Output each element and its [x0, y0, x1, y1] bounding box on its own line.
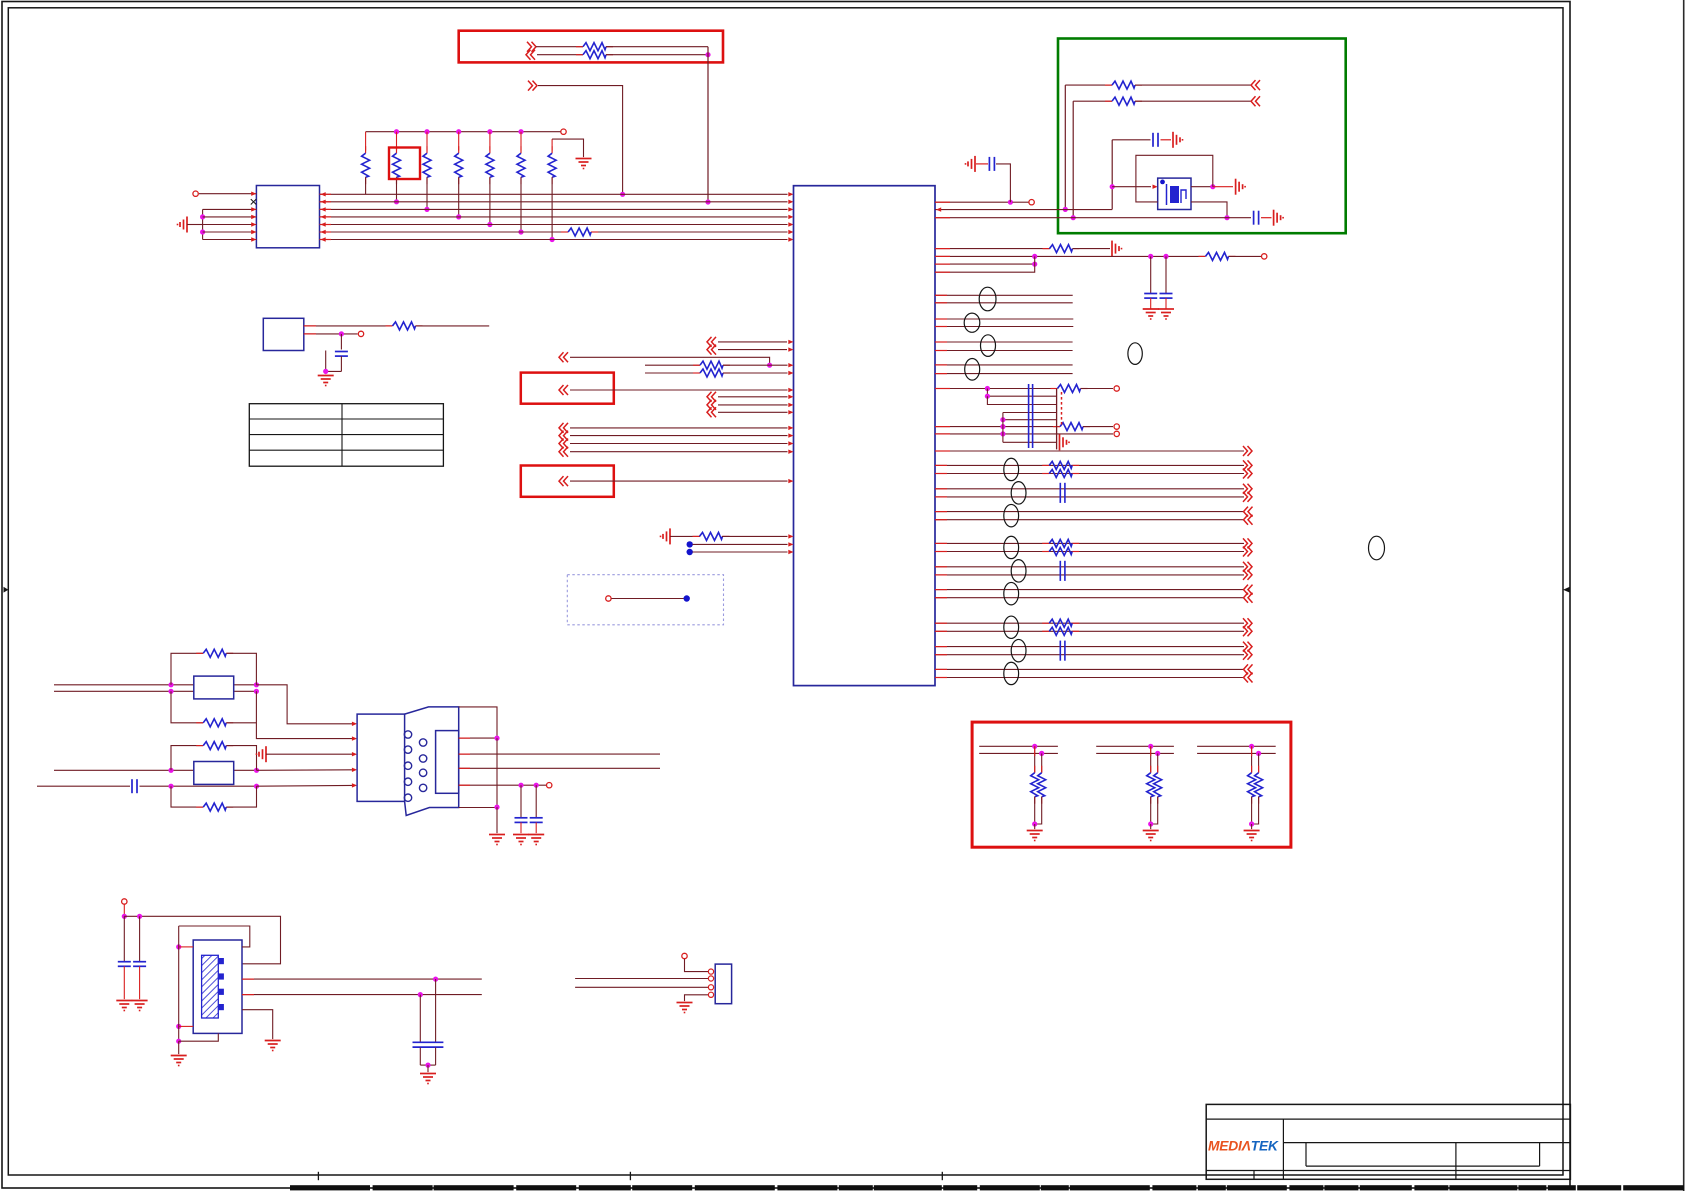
ground-resistor line	[669, 528, 671, 544]
resistor RR2	[1199, 255, 1206, 257]
wire	[718, 349, 787, 351]
net arrow	[712, 345, 717, 355]
junction	[339, 331, 344, 336]
crystal Y1 body	[193, 940, 242, 1033]
bus wire 5	[320, 224, 788, 226]
wire pin2	[575, 978, 709, 980]
wire	[1261, 217, 1272, 219]
net arrow	[1243, 469, 1248, 479]
no-connect X on pin2	[251, 199, 256, 204]
wire resistor line 1	[645, 364, 700, 366]
callout box (green)	[1058, 39, 1346, 234]
svg-text:MEDIΛTEK: MEDIΛTEK	[1208, 1139, 1279, 1154]
ground at connector	[186, 217, 188, 233]
resistor pull pair	[1150, 746, 1152, 772]
junction	[323, 369, 328, 374]
wire	[976, 163, 988, 165]
wire net2	[1073, 100, 1112, 102]
junction rail R4	[456, 129, 461, 134]
loop resistor RS3	[171, 746, 203, 771]
wire	[266, 753, 353, 755]
wire crystal gnd pin	[242, 1010, 273, 1039]
wire	[496, 738, 498, 807]
wire sim line4 with cap	[37, 785, 130, 787]
net arrow in box	[564, 385, 569, 395]
SIM holder contact holes column 1	[404, 731, 411, 738]
callout box (red) bottom right	[972, 722, 1291, 847]
wire	[1013, 201, 1029, 203]
crystal left pins	[176, 944, 181, 949]
capacitor CX1	[123, 916, 125, 961]
resistor pair	[1042, 542, 1049, 544]
wire sim right pin2	[459, 753, 660, 755]
wire	[1081, 388, 1113, 390]
junction	[620, 192, 625, 197]
bus wire 6	[320, 231, 569, 233]
title block logo cell	[1282, 1119, 1284, 1179]
footer text strip	[290, 1185, 370, 1190]
junction	[176, 1039, 181, 1044]
wire vertical from red box to bus	[707, 47, 709, 202]
oval marker	[1004, 582, 1019, 604]
wire	[187, 224, 203, 226]
wire resistor line 2	[645, 372, 700, 374]
wire	[612, 598, 684, 600]
wire	[1227, 217, 1251, 219]
junction	[518, 783, 523, 788]
wire	[693, 543, 788, 545]
SIM holder contact block	[436, 731, 459, 794]
wire	[570, 443, 788, 445]
junction bus	[487, 222, 492, 227]
wire rail 2	[979, 752, 1058, 754]
junction	[1249, 821, 1254, 826]
bus wire 1	[320, 193, 788, 195]
junction	[705, 199, 710, 204]
ESD array U4	[194, 676, 234, 699]
pin arrow	[251, 192, 256, 196]
wire rail 1	[979, 745, 1058, 747]
wire connector left pin	[203, 216, 257, 218]
wire	[570, 357, 770, 365]
net arrow	[1243, 538, 1248, 548]
audio ground bus	[1056, 389, 1058, 450]
wire audio G	[935, 433, 1113, 435]
wire	[935, 326, 1073, 328]
terminal at connector pin1	[193, 191, 198, 196]
wire pin R3 to green box	[935, 217, 1227, 219]
wire mosfet input	[1112, 186, 1151, 188]
junction	[1039, 751, 1044, 756]
net arrow trio	[712, 392, 717, 402]
net arrow	[1243, 642, 1248, 652]
net arrow	[1248, 673, 1253, 683]
net arrow	[1243, 562, 1248, 572]
resistor RA2	[1053, 426, 1060, 428]
wire top loop	[179, 926, 250, 947]
wire sim bottom	[459, 807, 497, 809]
junction	[1224, 215, 1229, 220]
junction	[705, 52, 710, 57]
junction	[168, 682, 173, 687]
junction	[985, 386, 990, 391]
bus wire 3	[320, 208, 788, 210]
terminal in dotted box	[606, 596, 611, 601]
wire	[496, 807, 498, 833]
wire pair A2	[935, 551, 1244, 553]
ground for RP7	[583, 158, 585, 159]
mosfet U2 body	[1158, 178, 1191, 209]
junction	[1256, 751, 1261, 756]
wire	[570, 427, 788, 429]
wire pair B2	[935, 654, 1244, 656]
junction	[254, 784, 259, 789]
wire	[723, 364, 788, 366]
junction	[1000, 417, 1005, 422]
capacitor pair plates	[1059, 641, 1061, 661]
wire sim right pin3	[459, 767, 660, 769]
junction	[1032, 821, 1037, 826]
wire left vertical	[178, 926, 180, 1041]
net arrow mid	[564, 352, 569, 362]
oval marker	[965, 359, 980, 381]
wire	[537, 54, 583, 56]
oval marker	[1004, 616, 1019, 638]
wire pair A1	[935, 542, 1244, 544]
ground	[1059, 434, 1061, 450]
wire pair B1	[935, 566, 1244, 568]
bottom border zone tick 1	[317, 1172, 319, 1180]
callout box (red) mid 1	[521, 373, 614, 404]
wire	[718, 404, 788, 406]
junction	[767, 363, 772, 368]
capacitor CR1	[988, 157, 990, 171]
junction	[254, 682, 259, 687]
resistor R_top2	[576, 54, 583, 56]
net arrow quad	[564, 423, 569, 433]
wire	[140, 785, 257, 787]
wire audio A	[935, 388, 1057, 390]
net arrow into box line 1	[527, 42, 532, 52]
wire diff pair	[935, 364, 1073, 366]
wire	[199, 193, 256, 195]
net arrow	[1243, 547, 1248, 557]
wire connector left pin	[203, 224, 257, 226]
junction rail R2	[394, 129, 399, 134]
net arrow	[1243, 570, 1248, 580]
loop resistor RS2	[171, 691, 203, 723]
wire pair B2	[935, 574, 1244, 576]
wire diff pair	[935, 318, 1073, 320]
wire crystal bottom pin	[179, 1033, 219, 1041]
ground	[1034, 824, 1036, 829]
series resistor bus line 6	[561, 231, 568, 233]
wire pair A2	[935, 473, 1244, 475]
wire	[1135, 84, 1251, 86]
node stub 2	[687, 549, 693, 555]
wire rail 1	[1096, 745, 1174, 747]
ground	[1150, 824, 1152, 829]
wire vertical to mosfet node	[1111, 140, 1113, 210]
wire	[935, 302, 1073, 304]
wire pair C2	[935, 519, 1244, 521]
wire pinB	[304, 333, 358, 335]
wire	[723, 372, 788, 374]
right zone arrow	[1563, 587, 1570, 593]
title block outer box	[1206, 1104, 1570, 1179]
junction rail R3	[424, 129, 429, 134]
junction	[1210, 184, 1215, 189]
left zone arrow	[4, 587, 9, 593]
oval marker far right	[1369, 536, 1385, 560]
junction	[168, 689, 173, 694]
wire sim right top	[459, 707, 497, 738]
wire	[718, 341, 787, 343]
rail terminal	[561, 129, 566, 134]
wire pair C2	[935, 597, 1244, 599]
resistor RM4	[693, 535, 700, 537]
resistor RA1	[1051, 388, 1058, 390]
wire	[416, 325, 490, 327]
junction	[122, 914, 127, 919]
net arrow	[1243, 460, 1248, 470]
junction	[1110, 184, 1115, 189]
capacitor CR2 branch	[1150, 256, 1152, 293]
wire pin R7	[935, 256, 1035, 272]
ground	[325, 375, 327, 376]
dotted option box	[567, 575, 723, 625]
wire pin4	[685, 995, 710, 1001]
oval marker	[979, 287, 996, 311]
capacitor CM1	[340, 334, 342, 350]
callout box (red) top-left	[459, 31, 723, 63]
wire net1	[1065, 84, 1112, 86]
wire	[1213, 186, 1233, 188]
capacitor CS1	[131, 779, 133, 793]
wire	[718, 396, 788, 398]
wire pin R2 to green box	[935, 209, 1112, 211]
resistor pull pair	[1251, 746, 1253, 772]
wire sim line2	[54, 690, 256, 692]
pull-up rail	[366, 131, 561, 133]
wire feedback loop	[1136, 155, 1213, 202]
net arrow into box line 2	[531, 50, 536, 60]
net arrow	[1248, 507, 1253, 517]
junction bus	[456, 214, 461, 219]
wire audio E	[1003, 419, 1057, 421]
callout box (red) mid 2	[521, 466, 614, 497]
resistor pull pair	[1034, 746, 1036, 772]
junction bus	[518, 229, 523, 234]
junction	[1000, 431, 1005, 436]
wire RP7 top to ground	[552, 139, 583, 157]
wire	[123, 905, 125, 917]
wire	[570, 480, 788, 482]
capacitor pair plates	[1059, 483, 1061, 503]
oval marker	[1011, 482, 1026, 504]
wire long net to arrow	[935, 450, 1244, 452]
resistor RG1	[1105, 84, 1112, 86]
ground	[684, 1002, 686, 1003]
resistor RM3	[693, 372, 700, 374]
wire	[256, 691, 353, 738]
capacitor CG1	[1152, 133, 1154, 147]
wire	[1161, 139, 1172, 141]
net arrow	[1243, 484, 1248, 494]
junction	[1071, 215, 1076, 220]
capacitor array plates	[1028, 384, 1030, 448]
terminal	[1114, 431, 1119, 436]
resistor pair	[1042, 464, 1049, 466]
wire crystal out1	[242, 978, 482, 980]
ground	[1172, 132, 1174, 148]
oval marker	[1004, 662, 1019, 684]
wire	[570, 451, 788, 453]
junction	[168, 784, 173, 789]
wire pinA	[304, 325, 392, 327]
junction	[1063, 207, 1068, 212]
highlight box (red) around RP2	[389, 148, 420, 180]
wire	[570, 389, 788, 391]
net arrow	[1243, 446, 1248, 456]
junction	[534, 783, 539, 788]
junction rail R5	[487, 129, 492, 134]
wire sim right pin4	[459, 784, 546, 786]
wire pair C2	[935, 677, 1244, 679]
net arrow	[1248, 664, 1253, 674]
wire pair A1	[935, 622, 1244, 624]
capacitor pair plates	[1059, 561, 1061, 581]
wire audio B	[987, 389, 1056, 397]
wire pair C1	[935, 511, 1244, 513]
wire	[256, 685, 353, 724]
wire pin R5	[935, 255, 1205, 257]
wire sim right pin1	[459, 737, 497, 739]
capacitor CX2	[139, 916, 141, 961]
wire pair C1	[935, 668, 1244, 670]
resistor RP1	[365, 132, 367, 151]
oval marker standalone	[1128, 343, 1142, 365]
SIM holder card outline	[405, 707, 459, 816]
net arrow	[1256, 80, 1261, 90]
wire mosfet output	[1191, 186, 1213, 188]
wire pair A1	[935, 464, 1244, 466]
junction	[433, 977, 438, 982]
oval marker	[981, 335, 996, 357]
wire	[538, 86, 623, 195]
wire audio C	[987, 396, 1056, 404]
junction	[985, 394, 990, 399]
title block inner cells	[1305, 1143, 1307, 1167]
wire pair A2	[935, 630, 1244, 632]
wire sim line3	[54, 769, 257, 771]
resistor RP3	[426, 132, 428, 151]
net arrow	[1243, 626, 1248, 636]
capacitor CG2	[1253, 211, 1255, 225]
wire	[606, 54, 708, 56]
wire cap stub	[1112, 139, 1150, 141]
wire pin R1	[935, 201, 1008, 203]
junction	[168, 768, 173, 773]
crystal pads	[218, 958, 224, 964]
audio junction vertical	[1002, 413, 1004, 443]
resistor RP7	[551, 139, 553, 150]
wire pair C1	[935, 589, 1244, 591]
wire connector left pin	[203, 208, 257, 210]
junction rail R6	[518, 129, 523, 134]
junction	[418, 992, 423, 997]
junction	[1000, 424, 1005, 429]
title block top strip line	[1206, 1118, 1570, 1120]
bus wire 2	[320, 201, 788, 203]
capacitor CX3	[435, 979, 437, 1042]
wire connector left pin	[203, 231, 257, 233]
capacitor CS2	[520, 785, 522, 817]
wire	[935, 373, 1073, 375]
net arrow	[1248, 585, 1253, 595]
resistor RM1	[386, 325, 393, 327]
wire	[693, 551, 788, 553]
mosfet pin1 dot	[1160, 180, 1165, 185]
resistor RM2	[693, 364, 700, 366]
junction	[1249, 744, 1254, 749]
resistor RP2	[396, 132, 398, 151]
oval marker	[1004, 504, 1019, 526]
oval marker	[1011, 639, 1026, 661]
bottom border zone tick 3	[941, 1172, 943, 1180]
ground	[974, 156, 976, 172]
wire	[1073, 248, 1111, 250]
ground	[1251, 824, 1253, 829]
junction	[1032, 744, 1037, 749]
mosfet symbol	[1166, 184, 1168, 205]
junction	[1148, 744, 1153, 749]
wire	[1083, 426, 1113, 428]
ground	[1273, 210, 1275, 226]
wire crystal out2	[242, 994, 482, 996]
junction bus 7	[550, 237, 555, 242]
wire diff pair	[935, 341, 1073, 343]
wire pin3	[575, 986, 709, 988]
resistor R_top1	[576, 46, 583, 48]
wire	[1229, 255, 1262, 257]
wire	[722, 535, 788, 537]
junction	[1163, 254, 1168, 259]
resistor RP4	[458, 132, 460, 151]
SIM holder J2 body	[357, 714, 405, 801]
component U3 body	[263, 318, 304, 350]
wire pin1	[685, 959, 710, 972]
wire	[257, 784, 354, 787]
wire	[935, 350, 1073, 352]
net arrow pair top	[712, 337, 717, 347]
wire rail 2	[1197, 752, 1276, 754]
ESD array U5	[194, 762, 234, 785]
junction bus	[424, 207, 429, 212]
notes table	[249, 404, 443, 467]
connector left common vertical	[202, 209, 204, 239]
resistor RG2	[1105, 100, 1112, 102]
ground	[427, 1065, 429, 1072]
terminal	[1262, 254, 1267, 259]
junction	[1032, 262, 1037, 267]
wire pin R4	[935, 248, 1050, 250]
IC U1 body	[794, 186, 936, 686]
net arrow	[1248, 593, 1253, 603]
ground	[496, 834, 498, 835]
junction	[200, 229, 205, 234]
node dot	[684, 595, 690, 601]
